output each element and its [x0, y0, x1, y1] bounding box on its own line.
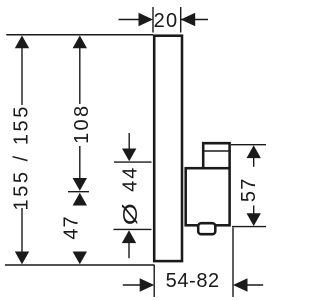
dim 108 line upper segment	[79, 48, 81, 104]
dim 44 upper stem wire	[128, 133, 130, 150]
dim 20 right extension line	[180, 7, 182, 33]
svg-text:47: 47	[61, 215, 83, 239]
dim 54-82 right leader wire	[246, 284, 263, 286]
dim 54-82 left arrow	[140, 278, 155, 292]
dim 44 top arrow	[122, 149, 136, 162]
dim 47 bottom arrow	[73, 252, 87, 265]
svg-text:108: 108	[71, 104, 93, 144]
dim 57 upper extension line	[231, 144, 266, 146]
svg-text:155 / 155: 155 / 155	[11, 104, 33, 210]
bottom knob	[198, 223, 215, 234]
handle body	[186, 168, 230, 225]
dim 57 line lower segment	[253, 206, 255, 214]
dim 57 bottom arrow	[247, 213, 261, 226]
dim 20 right leader wire	[181, 19, 208, 21]
dim 44 lower extension line	[114, 228, 152, 230]
bottom extension line (plate bottom)	[5, 264, 155, 266]
dim 108 top arrow	[73, 36, 87, 49]
centerline tick	[68, 191, 89, 193]
dim 44 lower stem wire	[128, 243, 130, 259]
svg-text:44: 44	[120, 166, 142, 192]
dim 47 top arrow	[73, 193, 87, 206]
select button cap	[203, 143, 229, 168]
dim 57 line upper segment	[253, 158, 255, 167]
dim 44 bottom arrow	[122, 230, 136, 243]
svg-text:57: 57	[238, 177, 260, 202]
svg-text:54-82: 54-82	[166, 270, 220, 292]
select button cap parting line	[203, 150, 230, 152]
dim 57 lower extension line	[232, 226, 266, 228]
dim 155/155 bottom arrow	[15, 252, 29, 265]
svg-text:Ø: Ø	[119, 203, 142, 225]
dim 54-82 right extension line	[232, 228, 234, 298]
dim 20 left extension line	[152, 7, 154, 33]
top extension line (plate top)	[6, 34, 153, 36]
dim 20 right arrow	[181, 13, 196, 27]
dim 20 left arrow	[139, 13, 154, 27]
dim 155/155 line upper segment	[21, 48, 23, 105]
wall plate (escutcheon, side view)	[154, 36, 182, 261]
dim 44 upper extension line	[114, 161, 152, 163]
dim 20 left leader wire	[119, 19, 141, 21]
svg-text:20: 20	[154, 10, 179, 32]
dim 108 bottom arrow	[73, 178, 87, 191]
dim 54-82 right arrow	[233, 278, 248, 292]
dim 54-82 left leader wire	[123, 284, 141, 286]
dim 57 top arrow	[247, 145, 261, 158]
dim 108 line lower segment	[79, 146, 81, 178]
dim 155/155 top arrow	[15, 36, 29, 49]
dim 155/155 line lower segment	[21, 208, 23, 252]
dim 54-82 left extension line	[153, 265, 155, 297]
